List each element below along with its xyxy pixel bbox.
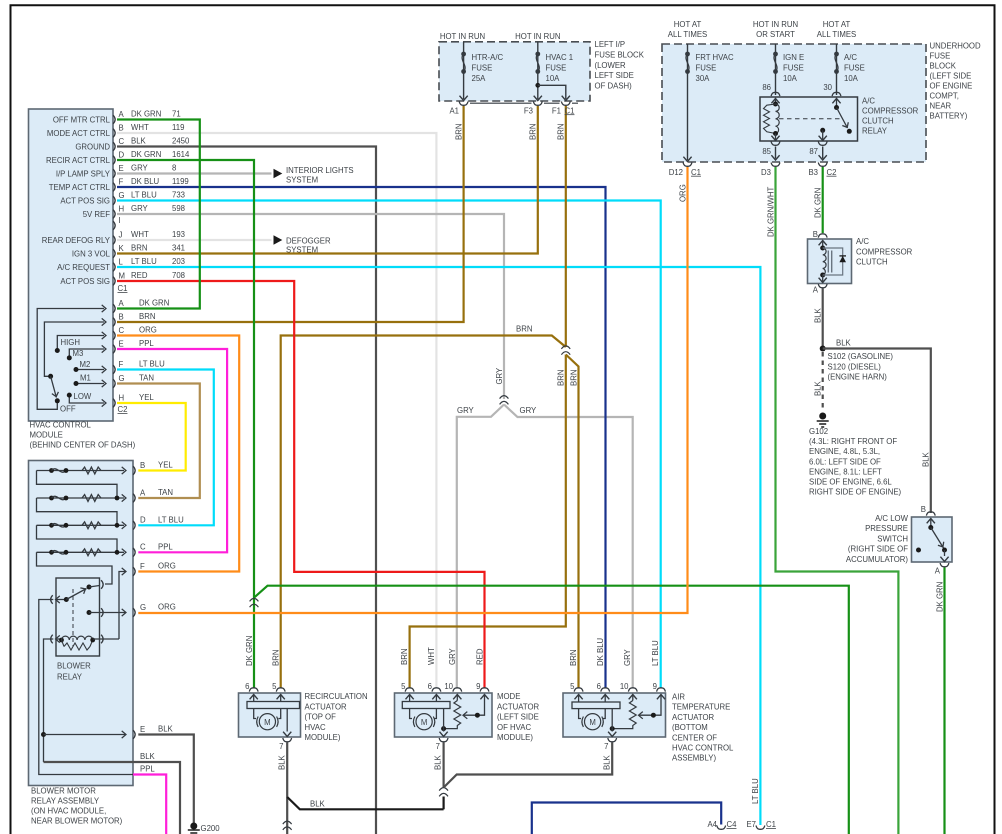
fan switch HIGH contact line to pin C	[57, 336, 104, 351]
mode pin 5 cup	[405, 688, 414, 692]
fuse HVAC 1 conductor	[537, 42, 539, 99]
svg-text:M: M	[119, 271, 126, 280]
svg-text:9: 9	[653, 682, 657, 691]
mode pin 10 arrow	[453, 695, 461, 700]
wire DK GRN 71 from C1-A to C2-A	[117, 120, 200, 309]
fan switch OFF contact	[55, 398, 60, 403]
connector C1 tie line	[470, 102, 578, 104]
svg-text:MODEACTUATOR(LEFT SIDEOF HVACM: MODEACTUATOR(LEFT SIDEOF HVACMODULE)	[497, 692, 540, 742]
blower resistor element row A	[82, 495, 101, 502]
svg-text:GRY: GRY	[495, 367, 504, 385]
blower assembly pin C arrow	[122, 549, 126, 556]
splice on DK GRN 1614	[250, 598, 259, 607]
relay coil top lead	[775, 99, 777, 105]
blower assembly pin C bracket	[133, 548, 135, 557]
air temp pin 9 cup	[657, 688, 666, 692]
svg-text:85: 85	[762, 147, 771, 156]
svg-text:BRN: BRN	[516, 325, 532, 334]
relay switch common lead	[836, 99, 838, 108]
wire DK GRN 1614 from C1-D to recirc actuator pin 6	[117, 160, 254, 688]
mode motor brackets	[413, 717, 434, 727]
svg-text:HVAC CONTROLMODULE(BEHIND CENT: HVAC CONTROLMODULE(BEHIND CENTER OF DASH…	[30, 421, 136, 450]
splice on BRN F1	[561, 346, 570, 355]
air temp pin 5 arrow	[575, 695, 583, 700]
A/C low pressure switch	[912, 517, 953, 562]
relay coil winding	[776, 104, 780, 134]
clutch pin A arrow	[819, 278, 827, 283]
recirc pin 7 lead	[286, 709, 288, 732]
svg-text:C4: C4	[727, 820, 738, 829]
svg-text:1199: 1199	[172, 177, 189, 186]
svg-text:DK GRN: DK GRN	[814, 188, 823, 218]
svg-text:C1: C1	[118, 284, 128, 293]
svg-text:BLK: BLK	[814, 307, 823, 323]
svg-text:A/C LOWPRESSURESWITCH(RIGHT SI: A/C LOWPRESSURESWITCH(RIGHT SIDE OFACCUM…	[846, 514, 909, 564]
svg-text:GROUND: GROUND	[75, 143, 110, 152]
svg-text:BRN: BRN	[272, 650, 281, 666]
wire LT BLU 203 from C1-L to connector E7	[117, 267, 760, 825]
svg-text:BLK: BLK	[922, 451, 931, 467]
blower relay arm arrowhead	[80, 586, 87, 594]
svg-text:6: 6	[597, 682, 601, 691]
svg-text:OFF: OFF	[60, 405, 76, 414]
blower relay box	[56, 578, 100, 656]
relay pin 85 exit arrow	[771, 155, 779, 160]
splice on mode BLK	[439, 788, 448, 797]
mode motor left lead	[410, 709, 412, 719]
svg-text:F: F	[119, 360, 124, 369]
svg-text:LT BLU: LT BLU	[651, 640, 660, 666]
svg-text:BLOWER MOTORRELAY ASSEMBLY(ON: BLOWER MOTORRELAY ASSEMBLY(ON HVAC MODUL…	[31, 787, 123, 826]
svg-text:F: F	[140, 562, 145, 571]
svg-text:87: 87	[809, 147, 818, 156]
blower relay coil winding	[62, 636, 93, 640]
svg-text:M: M	[421, 718, 428, 727]
svg-text:HOT IN RUN: HOT IN RUN	[440, 32, 485, 41]
air temp position resistor	[612, 701, 636, 729]
fuse IGN E element	[773, 52, 778, 74]
blower resistor element row C	[82, 549, 101, 556]
svg-text:BLK: BLK	[836, 338, 852, 347]
wire BLK from coil rail off page	[44, 762, 181, 834]
fan switch M2 contact	[74, 367, 79, 372]
recirc motor brackets	[257, 717, 278, 727]
air temp motor right lead	[603, 709, 605, 719]
svg-text:F1: F1	[552, 106, 561, 115]
svg-text:203: 203	[172, 257, 185, 266]
junction row C	[115, 550, 120, 555]
fan switch pin C arrow	[102, 332, 106, 339]
interior lights system arrow	[274, 169, 283, 178]
mode wiper arrowhead	[463, 712, 467, 719]
relay linkage dashed line	[779, 118, 840, 120]
relay switch arm arrowhead	[842, 122, 850, 129]
blower relay common lead to pin G	[89, 612, 126, 614]
svg-text:5: 5	[401, 682, 406, 691]
clutch coil top lead	[822, 241, 824, 249]
mode position resistor	[444, 701, 461, 729]
svg-text:K: K	[119, 244, 125, 253]
air temp pin 7 lead	[611, 709, 613, 732]
blower resistor row D conductor	[37, 524, 125, 526]
relay pin 87 lead	[822, 130, 824, 140]
svg-text:I: I	[119, 216, 121, 225]
wire BRN from fuse A1 to C2-B	[117, 106, 464, 322]
HVAC module connector C1 pin M bracket	[113, 277, 115, 286]
svg-text:B: B	[921, 505, 926, 514]
mode pin 5 arrow	[406, 695, 414, 700]
svg-text:BRN: BRN	[400, 649, 409, 665]
blower relay NO contact stub	[89, 586, 100, 588]
fuse HTR-A/C conductor	[463, 42, 465, 99]
fuse HTR-A/C element	[461, 52, 466, 74]
wire BRN branch from recirc pin 5 to splice	[281, 336, 566, 689]
svg-text:BRN: BRN	[454, 124, 463, 140]
svg-text:H: H	[119, 393, 125, 402]
svg-text:C: C	[140, 543, 146, 552]
HVAC module connector C1 pin C bracket	[113, 142, 115, 151]
wire DK GRN from B3 to A/C compressor clutch	[822, 167, 824, 233]
svg-text:G: G	[140, 603, 146, 612]
air temp pin 10 cup	[628, 688, 637, 692]
HVAC module connector C2 pin H bracket	[113, 399, 115, 408]
defogger system arrow	[274, 235, 283, 244]
blower assembly pin B arrow	[122, 467, 126, 474]
fan switch pivot contact	[48, 374, 53, 379]
air temp actuator bar	[572, 702, 620, 709]
A/C compressor clutch	[808, 239, 852, 284]
svg-text:708: 708	[172, 271, 185, 280]
connector cup A1	[459, 102, 468, 106]
svg-text:5: 5	[272, 682, 277, 691]
air temp pin 6 arrow	[601, 695, 609, 700]
fan switch rail from pin B to pivot	[44, 322, 104, 376]
wire LT BLU 733 from C1-G to air temp actuator pin 9	[117, 201, 661, 689]
svg-text:B: B	[119, 123, 124, 132]
blower resistor row A conductor	[37, 497, 125, 499]
svg-text:TAN: TAN	[139, 374, 154, 383]
wire DK GRN 1614 branch to page bottom	[254, 586, 849, 834]
mode resistor junction	[441, 726, 446, 731]
fan switch rail from pin A to OFF contact	[37, 309, 104, 410]
relay pin 87 dot	[820, 128, 825, 133]
fan switch LOW contact line to pin H	[69, 395, 104, 403]
relay pin 87 arrow	[819, 136, 827, 141]
svg-text:M2: M2	[80, 360, 91, 369]
blower relay NO contact dot	[87, 585, 92, 590]
wire BLK from clutch A to splice S102	[822, 289, 824, 349]
blower resistor element row B	[82, 467, 101, 474]
svg-text:9: 9	[476, 682, 480, 691]
blower relay armature pivot	[64, 597, 69, 602]
air temperature actuator	[563, 693, 666, 737]
relay pin 30 cup	[832, 92, 841, 96]
fuse FRT HVAC exit arrow	[683, 157, 691, 162]
air temp pin 10 arrow	[629, 695, 637, 700]
blower resistor row A right dot	[64, 496, 69, 501]
fuse A/C element	[834, 52, 839, 74]
blower assembly pin F bracket	[133, 567, 135, 576]
fuse FRT HVAC conductor	[687, 44, 689, 160]
svg-text:A: A	[140, 488, 146, 497]
svg-text:86: 86	[762, 83, 771, 92]
connector cup D3	[771, 163, 780, 167]
clutch pin B arrow	[819, 241, 827, 246]
svg-text:ACT POS SIG: ACT POS SIG	[60, 197, 110, 206]
svg-text:A/CCOMPRESSORCLUTCH: A/CCOMPRESSORCLUTCH	[856, 237, 913, 267]
pressure switch arm arrowhead	[938, 542, 946, 549]
svg-text:D3: D3	[761, 168, 771, 177]
svg-text:A: A	[813, 286, 819, 295]
pressure switch pin A arrow	[940, 557, 948, 562]
air temp pin 10 stem	[632, 695, 634, 701]
svg-text:7: 7	[604, 742, 608, 751]
air temp motor left lead	[579, 709, 581, 719]
wire GRY 598 from C1-H to splice S	[117, 214, 504, 399]
wire BRN 341 from C1-K to fuse block F3	[117, 106, 538, 254]
svg-text:UNDERHOODFUSEBLOCK(LEFT SIDEOF: UNDERHOODFUSEBLOCK(LEFT SIDEOF ENGINECOM…	[930, 42, 981, 121]
svg-text:G102(4.3L: RIGHT FRONT OFENGIN: G102(4.3L: RIGHT FRONT OFENGINE, 4.8L, 5…	[809, 427, 902, 497]
fuse HVAC 1 branch dot	[535, 83, 540, 88]
HVAC module connector C1 pin G bracket	[113, 196, 115, 205]
svg-text:598: 598	[172, 204, 185, 213]
connector cup A4	[717, 826, 726, 830]
mode wiper dot	[475, 713, 480, 718]
blower relay armature lead	[56, 599, 67, 601]
svg-text:D: D	[119, 150, 125, 159]
blower assembly pin E bracket	[133, 730, 135, 739]
air temp motor brackets	[582, 717, 603, 727]
wire LT BLU from C2-F to blower relay assembly pin D	[117, 370, 214, 526]
svg-text:I/P LAMP SPLY: I/P LAMP SPLY	[56, 170, 111, 179]
mode pin 10 cup	[453, 688, 462, 692]
fuse FRT HVAC element	[685, 52, 690, 74]
pressure switch pin A cup	[940, 563, 949, 567]
pressure switch pin B cup	[926, 512, 935, 516]
connector cup D12	[683, 163, 692, 167]
svg-text:A1: A1	[449, 106, 459, 115]
svg-text:E: E	[119, 164, 124, 173]
air temp pin 7 arrow	[608, 732, 616, 737]
svg-text:HOT IN RUNOR START: HOT IN RUNOR START	[753, 20, 798, 39]
svg-text:C: C	[119, 137, 125, 146]
wire DK GRN from pressure switch to page bottom	[943, 568, 945, 834]
air temp pin 5 stem	[578, 695, 580, 703]
svg-text:DK GRN: DK GRN	[935, 582, 944, 612]
wire BRN from splice to air temp actuator pin 5	[566, 355, 579, 689]
coil rail to ground rows	[44, 639, 54, 762]
HVAC module connector C1 pin E bracket	[113, 169, 115, 178]
fan switch armature arrowhead	[52, 392, 60, 398]
svg-text:BRN: BRN	[569, 650, 578, 666]
svg-text:DK BLU: DK BLU	[596, 637, 605, 666]
air temp pin 5 cup	[574, 688, 583, 692]
blower assembly pin E arrow	[122, 731, 126, 738]
svg-text:C: C	[119, 326, 125, 335]
clutch coil bottom dot	[820, 273, 825, 278]
pressure switch common dot	[928, 525, 933, 530]
svg-text:B3: B3	[808, 168, 818, 177]
blower assembly pin G arrow	[122, 609, 126, 616]
blower resistor row B conductor	[37, 470, 125, 472]
svg-text:BLK: BLK	[602, 754, 611, 770]
svg-text:BRN: BRN	[557, 124, 566, 140]
relay coil bottom dot	[773, 131, 778, 136]
blower resistor row C thermal limiter	[52, 551, 67, 554]
wire DK BLU hook to connector A4	[532, 803, 721, 834]
HVAC module connector C1 pin D bracket	[113, 156, 115, 165]
blower motor relay assembly	[29, 461, 134, 786]
svg-text:5V REF: 5V REF	[83, 210, 111, 219]
blower relay common out bracket	[101, 608, 103, 617]
blower relay coil left dot	[59, 638, 64, 643]
fan switch LOW contact	[67, 393, 72, 398]
clutch pin A cup	[818, 284, 827, 288]
pressure switch arm	[931, 528, 944, 549]
blower relay coil left arrow	[56, 635, 60, 642]
recirc motor left lead	[254, 709, 256, 719]
fan switch HIGH contact	[55, 348, 60, 353]
svg-text:M1: M1	[80, 373, 91, 382]
svg-text:6: 6	[245, 682, 249, 691]
svg-text:7: 7	[436, 742, 440, 751]
mode pin 6 stem	[435, 695, 437, 702]
svg-text:71: 71	[172, 110, 181, 119]
svg-text:PPL: PPL	[158, 543, 173, 552]
recirc pin 5 cup	[276, 688, 285, 692]
relay pin 85 cup	[771, 142, 780, 146]
relay pin 85 lead	[775, 134, 777, 141]
svg-text:BLK: BLK	[310, 799, 326, 808]
relay coil resistor element	[764, 104, 776, 134]
svg-text:BRN: BRN	[529, 124, 538, 140]
blower relay common dot	[87, 610, 92, 615]
wire DK GRN/WHT from D3 to page bottom	[776, 167, 899, 834]
recirc pin 6 stem	[253, 695, 255, 702]
svg-text:5: 5	[570, 682, 575, 691]
connector cup B3	[818, 163, 827, 167]
junction pin E	[41, 732, 46, 737]
mode motor right lead	[434, 709, 436, 719]
air temp pin 9 arrow	[657, 695, 665, 700]
A/C compressor clutch relay box	[760, 97, 858, 141]
mode pin 9 arrow	[480, 695, 488, 700]
wire ORG from blower pin G to underhood D12	[138, 167, 687, 613]
svg-text:BRN: BRN	[557, 370, 566, 386]
svg-text:ACT POS SIG: ACT POS SIG	[60, 277, 110, 286]
svg-text:G: G	[119, 191, 125, 200]
ground G102 symbol	[817, 413, 829, 427]
fan switch M1 contact line to pin G	[76, 383, 104, 385]
svg-text:GRY: GRY	[448, 647, 457, 665]
recirc pin 7 arrow	[283, 732, 291, 737]
wire BLK from S102 to low pressure switch	[823, 349, 931, 514]
wire WHT 119 from C1-B to mode actuator pin 6	[117, 133, 436, 688]
mode pin 7 lead	[443, 709, 445, 732]
svg-text:GRY: GRY	[131, 204, 149, 213]
relay switch common dot	[834, 105, 839, 110]
svg-text:A/C REQUEST: A/C REQUEST	[57, 263, 110, 272]
recirculation actuator	[239, 693, 301, 737]
fan switch pin H arrow	[102, 399, 106, 406]
clutch diode	[839, 256, 846, 262]
air temp pin 6 stem	[604, 695, 606, 703]
wire PPL from blower assembly off page	[133, 775, 166, 834]
HVAC module connector C2 pin E bracket	[113, 345, 115, 354]
clutch pin B cup	[818, 234, 827, 238]
air temp pin 9 wiper lead	[640, 695, 662, 716]
air temp motor circle	[585, 714, 601, 730]
svg-text:RECIRCULATIONACTUATOR(TOP OFHV: RECIRCULATIONACTUATOR(TOP OFHVACMODULE)	[305, 692, 368, 742]
blower relay coil left bracket	[51, 635, 53, 644]
pressure switch NO dot	[942, 548, 947, 553]
blower assembly pin D arrow	[122, 522, 126, 529]
HVAC module connector C1 pin H bracket	[113, 210, 115, 219]
svg-text:PPL: PPL	[140, 765, 155, 774]
HVAC control module	[29, 109, 114, 421]
mode pin 7 cup	[439, 738, 448, 742]
wire BRN from splice to mode actuator pin 5	[410, 355, 566, 689]
HVAC module connector C2 pin B bracket	[113, 318, 115, 327]
blower relay armature arrow	[56, 596, 60, 603]
blower resistor row B right dot	[64, 468, 69, 473]
blower assembly pin A arrow	[122, 494, 126, 501]
left I/P fuse block	[439, 42, 590, 101]
connector cup F3	[533, 102, 542, 106]
wire GRY 598 right branch to air temp actuator pin 10	[504, 405, 633, 689]
air temp resistor junction	[610, 726, 615, 731]
blower assembly pin F arrow	[122, 568, 126, 575]
blower resistor link C to relay contact	[37, 552, 113, 584]
blower resistor row B thermal limiter	[52, 469, 67, 472]
svg-text:1614: 1614	[172, 150, 190, 159]
svg-text:YEL: YEL	[139, 393, 154, 402]
mode pin 6 arrow	[432, 695, 440, 700]
svg-text:HIGH: HIGH	[61, 338, 81, 347]
blower assembly pin A bracket	[133, 494, 135, 503]
svg-text:G: G	[119, 374, 125, 383]
blower resistor row A left dot	[49, 496, 54, 501]
fuse IGN E conductor	[775, 44, 777, 95]
svg-text:GRY: GRY	[520, 406, 538, 415]
clutch coil winding	[823, 248, 826, 275]
HVAC module connector C1 pin K bracket	[113, 249, 115, 258]
svg-text:BRN: BRN	[139, 312, 155, 321]
fuse A/C conductor	[836, 44, 838, 95]
fan switch M3 contact	[67, 355, 72, 360]
blower resistor row C left dot	[49, 550, 54, 555]
wire ORG from C2-C to blower relay assembly pin F	[117, 336, 239, 572]
recirc motor right lead	[278, 709, 280, 719]
svg-text:C2: C2	[827, 168, 837, 177]
svg-text:HOT IN RUN: HOT IN RUN	[515, 32, 560, 41]
svg-text:193: 193	[172, 230, 185, 239]
relay pin 87 exit arrow	[819, 155, 827, 160]
svg-text:BLK: BLK	[434, 754, 443, 770]
blower relay coil right lead	[93, 638, 119, 640]
svg-text:6: 6	[428, 682, 432, 691]
svg-text:LT BLU: LT BLU	[131, 257, 157, 266]
HVAC module connector C1 pin L bracket	[113, 263, 115, 272]
svg-text:E7: E7	[746, 820, 756, 829]
svg-text:WHT: WHT	[427, 647, 436, 665]
pin E internal lead	[44, 734, 127, 736]
mode pin 9 wiper lead	[464, 695, 485, 716]
recirc motor circle	[259, 714, 275, 730]
blower resistor row C conductor	[37, 551, 125, 553]
wire BLK from pin E to ground G200	[138, 735, 194, 827]
svg-text:M: M	[264, 718, 271, 727]
